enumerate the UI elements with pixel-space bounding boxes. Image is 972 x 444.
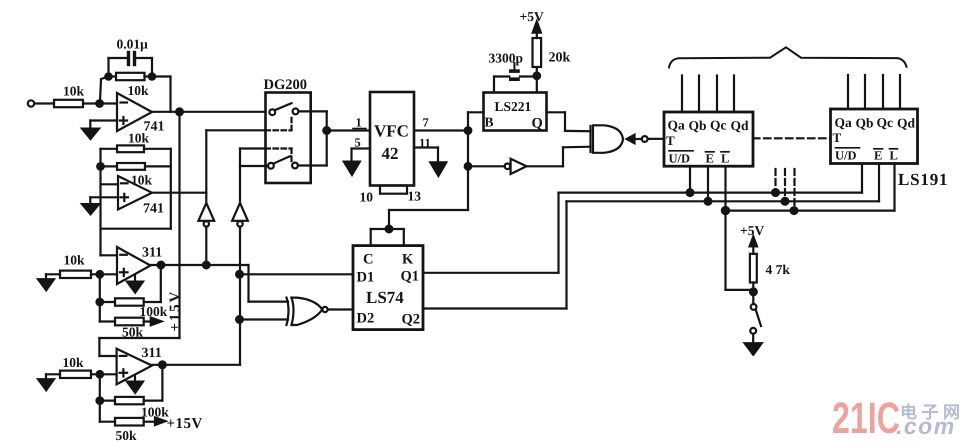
svg-text:C: C (363, 252, 373, 268)
node S (97, 271, 104, 278)
watermark 21IC.com logo (832, 394, 965, 443)
node A (op1 inverting input) (96, 100, 103, 107)
svg-text:50k: 50k (116, 428, 138, 443)
svg-text:D1: D1 (357, 270, 375, 286)
wire (635, 138, 642, 140)
wire (239, 227, 241, 365)
gate U7 (AND) (591, 125, 624, 153)
capacitor C2 3300p (489, 51, 537, 93)
svg-text:B: B (485, 115, 494, 130)
capacitor C1 0.01u (117, 37, 149, 67)
wire (to DG200 switch 2 input) (240, 165, 268, 167)
svg-text:0.01μ: 0.01μ (117, 37, 149, 52)
svg-text:311: 311 (142, 346, 162, 361)
svg-text:7: 7 (423, 116, 429, 130)
svg-text:50k: 50k (122, 325, 144, 340)
node W (311 #2 output) (159, 361, 166, 368)
resistor R3 10k (op2 feedback) (117, 131, 150, 153)
ground (311 #2) (127, 375, 143, 393)
resistor R8 100k (115, 298, 168, 319)
svg-text:Qd: Qd (897, 116, 916, 131)
svg-text:Q1: Q1 (401, 269, 420, 285)
svg-text:311: 311 (142, 246, 162, 261)
svg-text:10k: 10k (63, 84, 85, 99)
node F (236, 316, 243, 323)
ground (VFC pin 11) (430, 162, 446, 176)
svg-text:VFC: VFC (374, 122, 409, 141)
node Q (791, 207, 798, 214)
ground (op1 +) (82, 121, 117, 140)
node N (705, 198, 712, 205)
node P (722, 207, 729, 214)
wire (dashed to further stages 2) (784, 169, 786, 201)
svg-text:LS74: LS74 (366, 288, 404, 307)
comparator U12 311 #1 (117, 246, 162, 285)
wire (XOR lower input) (240, 318, 288, 320)
wire (205, 227, 207, 265)
wire (311 #1 feedback network) (100, 265, 161, 322)
pin 11 (414, 136, 438, 163)
arrowhead into gate output (627, 135, 635, 144)
node I (465, 127, 472, 134)
node U (97, 299, 104, 306)
node D (on 311 #1 output) (203, 262, 210, 269)
node J (465, 163, 472, 170)
svg-text:L: L (890, 149, 898, 163)
svg-text:3300p: 3300p (489, 51, 524, 66)
wire (gate output to D2) (328, 308, 353, 310)
resistor R9 50k (100, 318, 151, 340)
control arrow 2 (232, 203, 248, 227)
power +5V (LS221) (520, 9, 544, 38)
node T (311 #1 output) (158, 262, 165, 269)
wire (pin B) (468, 112, 484, 210)
svg-text:20k: 20k (549, 51, 571, 66)
wire (311 #1 inverting input) (101, 254, 118, 256)
wire (op2 inverting input) (101, 183, 119, 185)
op-amp U2 741 (118, 176, 164, 217)
node H (534, 73, 541, 80)
wire (inverter output to gate) (527, 147, 591, 167)
pin 7 (414, 116, 468, 131)
svg-text:10: 10 (360, 190, 374, 205)
wire (83, 102, 117, 104)
analog switch U3 DG200 (264, 77, 311, 183)
wire (dashed control, switch 2) (266, 149, 292, 162)
svg-text:Qa: Qa (668, 118, 686, 133)
svg-text:T: T (833, 130, 842, 145)
wire (Q2 to counters E bus) (423, 164, 879, 309)
wire (Q1 to counters U/D bus) (423, 164, 862, 273)
svg-text:T: T (666, 133, 675, 148)
svg-text:E: E (874, 149, 882, 163)
wire (E pin drop) (707, 166, 709, 201)
wire (L pin drop and to switch) (726, 166, 754, 290)
svg-text:+15V: +15V (167, 416, 203, 432)
timing component between pins 10 and 13 (360, 186, 422, 205)
svg-text:10k: 10k (128, 131, 150, 146)
wire (91, 273, 117, 275)
wire (311 #2 output) (152, 364, 240, 366)
svg-text:10k: 10k (128, 83, 150, 98)
wire (U11 output stubs Qa-Qd) (848, 75, 900, 109)
svg-text:Q: Q (532, 116, 543, 132)
wire (109, 77, 171, 112)
wire (101, 149, 171, 229)
resistor R4 10k (op2 input) (117, 163, 153, 188)
wire (91, 373, 117, 375)
svg-text:LS191: LS191 (898, 170, 948, 189)
ground (311 #1) (127, 275, 143, 293)
resistor R10 10k (60, 355, 91, 378)
node K (386, 226, 393, 233)
svg-text:Qa: Qa (835, 115, 853, 130)
svg-text:Qc: Qc (710, 118, 727, 133)
flip-flop U9 LS74 (353, 246, 423, 330)
svg-text:Qb: Qb (856, 116, 874, 131)
node E (236, 271, 243, 278)
svg-text:Qd: Qd (731, 118, 750, 133)
svg-text:10k: 10k (64, 253, 86, 268)
svg-text:D2: D2 (357, 311, 375, 327)
svg-text:+5V: +5V (740, 223, 764, 238)
svg-text:+15V: +15V (168, 290, 184, 332)
power +15V (311 #1, arrow) (151, 290, 184, 332)
node B (op1 output) (176, 108, 183, 115)
wire (left bus to 311 #1 inverting input) (99, 149, 101, 256)
wire (101, 148, 171, 150)
node R (750, 288, 757, 295)
pin 5 (352, 136, 371, 163)
op-amp U1 741 (117, 93, 165, 135)
wire (switch 2 control line) (240, 149, 266, 204)
svg-text:.com: .com (896, 413, 956, 439)
wire (Q output to gate) (547, 112, 591, 131)
resistor R7 10k (60, 253, 91, 279)
control arrow 1 (198, 203, 214, 227)
ground (311 #2 input) (38, 374, 60, 390)
svg-text:21IC: 21IC (832, 394, 900, 443)
wire (34, 102, 54, 104)
ground (311 #1 input) (38, 274, 60, 290)
switch S1b (268, 156, 298, 169)
wire (136, 58, 155, 80)
inverter U6 (505, 159, 527, 174)
node G (323, 127, 330, 134)
resistor R12 50k (100, 418, 155, 443)
svg-text:13: 13 (408, 189, 422, 204)
wire (752, 283, 754, 305)
svg-text:U/D: U/D (669, 152, 691, 166)
svg-text:1: 1 (356, 116, 362, 130)
input terminal J1 (28, 100, 34, 106)
svg-text:L: L (721, 152, 729, 166)
svg-text:K: K (402, 252, 414, 268)
wire (468, 165, 505, 167)
wire (switch 1 control line) (206, 130, 265, 203)
connector bubble (642, 136, 648, 142)
node C (97, 163, 104, 170)
counter U11 LS191 #2 (831, 109, 918, 164)
wire (op2 output) (152, 192, 206, 194)
ground (VFC pin 5) (344, 162, 360, 175)
resistor R5 20k (533, 38, 571, 67)
wire (U10 output stubs Qa-Qd) (682, 76, 734, 113)
brace over counter outputs (669, 47, 907, 67)
svg-text:741: 741 (143, 202, 164, 217)
resistor R6 4.7k (750, 254, 790, 283)
svg-text:Qb: Qb (689, 118, 707, 133)
wire (101, 165, 171, 167)
svg-text:10k: 10k (63, 355, 85, 370)
node M (772, 189, 779, 196)
wire (op1 output to DG200) (152, 111, 266, 113)
wire (U/D pin drop) (689, 166, 691, 192)
wire (to LS191 T) (648, 138, 664, 140)
wire (311 #1 output to D1) (151, 265, 354, 302)
switch S1a (269, 103, 298, 115)
power +15V (311 #2, arrow) (155, 416, 203, 432)
wire (op1 output down to 311 #2 inverting input) (99, 112, 179, 356)
svg-text:LS221: LS221 (495, 99, 532, 114)
resistor R11 100k (115, 397, 169, 420)
svg-text:Q2: Q2 (402, 312, 421, 328)
resistor R2 10k (op1 feedback) (116, 73, 149, 98)
wire (dashed to further stages 1) (774, 169, 776, 193)
wire (dashed control, switch 1) (266, 117, 292, 130)
wire (100, 58, 127, 102)
pin 1 (353, 116, 366, 130)
node O (782, 198, 789, 205)
power +5V (pull-up) (740, 223, 764, 254)
counter U10 LS191 #1 (664, 112, 753, 166)
switch S2 (750, 304, 761, 334)
wire (pin7 node down to LS74 clock) (389, 210, 468, 229)
resistor R1 10k (54, 84, 85, 108)
svg-text:DG200: DG200 (264, 77, 308, 93)
svg-text:4 7k: 4 7k (766, 262, 791, 277)
wire (switch outputs to VFC input) (298, 111, 370, 165)
node L (687, 189, 694, 196)
svg-text:Qc: Qc (877, 115, 894, 130)
ground (switch S2) (745, 334, 762, 355)
svg-text:U/D: U/D (835, 149, 857, 163)
wire (dashed ripple link between counters) (753, 137, 831, 139)
svg-text:+5V: +5V (520, 9, 544, 24)
monostable U5 LS221 (484, 93, 547, 132)
wire (to C and K pins) (371, 229, 404, 246)
gate U8 (XNOR) (287, 298, 328, 325)
wire (311 #2 feedback network) (100, 365, 163, 422)
svg-text:10k: 10k (131, 173, 153, 188)
svg-text:E: E (706, 152, 714, 166)
node X (97, 397, 104, 404)
wire (dashed to further stages 3) (793, 169, 795, 211)
converter U4 VFC42 (370, 92, 414, 186)
comparator U13 311 #2 (117, 346, 162, 384)
wire (536, 67, 538, 93)
svg-text:42: 42 (382, 144, 399, 163)
ground (op2 +) (82, 197, 118, 214)
node V (97, 371, 104, 378)
wire (L bus) (726, 164, 895, 211)
